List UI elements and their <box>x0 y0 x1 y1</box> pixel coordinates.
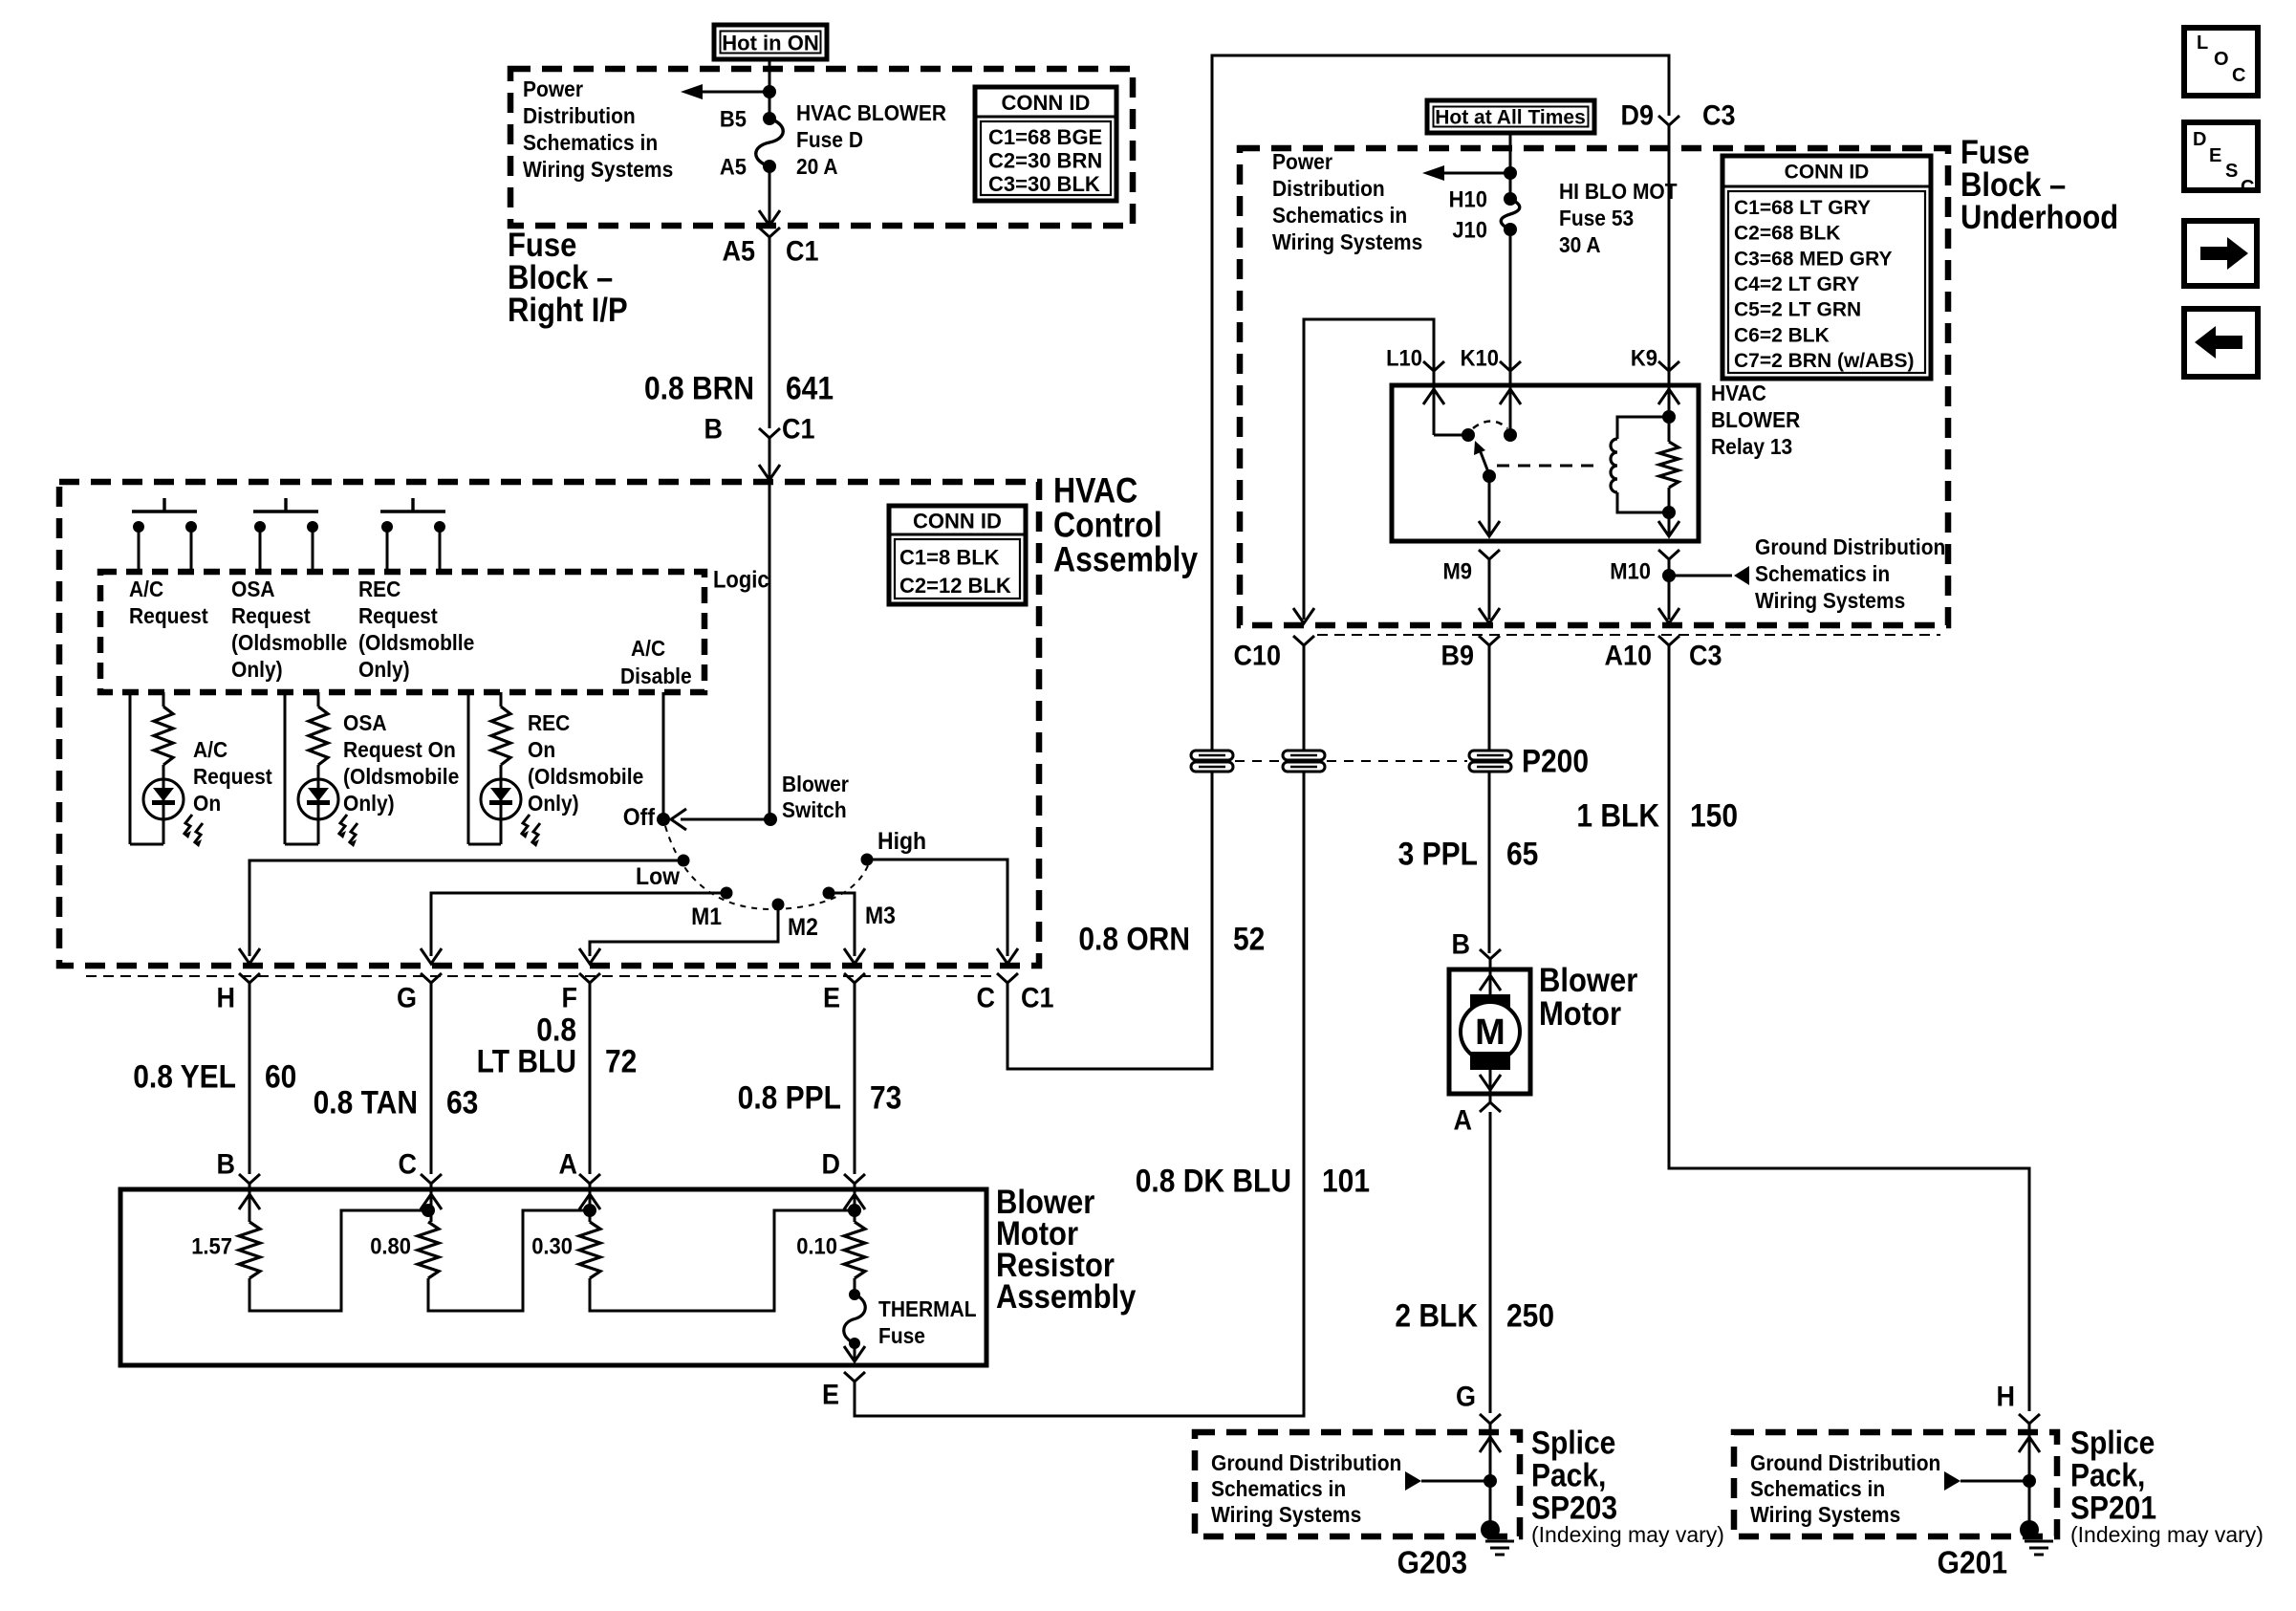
svg-text:M10: M10 <box>1610 557 1651 583</box>
svg-text:Motor: Motor <box>1539 995 1621 1033</box>
svg-text:Power: Power <box>1272 149 1332 174</box>
svg-text:150: 150 <box>1690 797 1738 834</box>
svg-text:K9: K9 <box>1631 344 1657 370</box>
blower switch common wire <box>769 482 771 819</box>
pin F <box>579 973 600 983</box>
svg-text:C3: C3 <box>1702 99 1736 131</box>
svg-text:0.30: 0.30 <box>531 1232 573 1258</box>
svg-text:C: C <box>976 982 995 1013</box>
svg-text:0.8 TAN: 0.8 TAN <box>314 1084 418 1121</box>
svg-text:OSA: OSA <box>231 577 274 601</box>
svg-text:65: 65 <box>1506 836 1538 872</box>
svg-text:Blower: Blower <box>1539 962 1637 999</box>
nav icon LOC <box>2184 28 2258 96</box>
resistor assembly pin C <box>421 1174 442 1184</box>
svg-text:High: High <box>877 828 926 855</box>
svg-text:Ground Distribution: Ground Distribution <box>1211 1450 1401 1475</box>
fuse block underhood connector boundary (thin dashed) <box>1317 634 1940 636</box>
svg-text:B: B <box>216 1148 235 1180</box>
svg-text:REC: REC <box>528 710 570 735</box>
connector C1 pin B fork <box>759 428 780 438</box>
svg-text:Wiring Systems: Wiring Systems <box>1755 588 1905 613</box>
svg-text:52: 52 <box>1233 921 1265 957</box>
ground stud G201 <box>2020 1520 2039 1539</box>
svg-text:0.80: 0.80 <box>370 1232 411 1258</box>
svg-text:L10: L10 <box>1386 344 1422 370</box>
svg-text:C4=2 LT GRY: C4=2 LT GRY <box>1734 273 1859 295</box>
svg-text:D9: D9 <box>1620 99 1654 131</box>
fuse D terminal A5 <box>763 160 776 173</box>
svg-text:(Indexing may vary): (Indexing may vary) <box>2070 1522 2264 1547</box>
wire into HVAC control assembly <box>769 438 771 478</box>
svg-text:Only): Only) <box>231 657 283 682</box>
svg-text:E: E <box>823 982 840 1013</box>
svg-text:Distribution: Distribution <box>523 103 636 128</box>
svg-text:On: On <box>528 737 555 762</box>
relay internal resistor <box>1668 417 1671 442</box>
relay pin arrow K9 <box>1658 389 1679 404</box>
svg-text:Fuse D: Fuse D <box>796 127 863 152</box>
svg-text:Wiring Systems: Wiring Systems <box>1272 229 1422 254</box>
svg-text:A/C: A/C <box>631 636 665 661</box>
svg-text:(Oldsmobile: (Oldsmobile <box>528 764 643 789</box>
svg-text:D: D <box>821 1148 840 1180</box>
svg-text:BLOWER: BLOWER <box>1711 407 1800 432</box>
splice pack SP203 dashed box <box>1195 1432 1520 1536</box>
svg-text:C1: C1 <box>1021 982 1054 1013</box>
wire 3 PPL 65 (B9 to blower motor) <box>1488 645 1491 953</box>
svg-text:K10: K10 <box>1461 344 1499 370</box>
OSA request LED branch with resistor <box>285 692 328 844</box>
junction dot r4 top <box>848 1204 861 1217</box>
svg-text:Request: Request <box>129 603 208 628</box>
resistor 1.57 <box>239 1222 260 1278</box>
svg-text:Switch: Switch <box>782 797 847 822</box>
svg-text:Pack,: Pack, <box>2070 1457 2145 1493</box>
fuse D HVAC BLOWER 20A <box>756 119 784 166</box>
blower motor internal bottom lead <box>1489 1070 1492 1094</box>
nav icon DESC <box>2184 122 2258 198</box>
fuse 53 terminal H10 <box>1504 192 1517 206</box>
svg-text:C6=2 BLK: C6=2 BLK <box>1734 324 1830 346</box>
svg-text:C1=8 BLK: C1=8 BLK <box>899 545 1000 569</box>
svg-text:Schematics in: Schematics in <box>523 130 658 155</box>
svg-text:60: 60 <box>265 1058 296 1095</box>
svg-text:0.8 DK BLU: 0.8 DK BLU <box>1136 1163 1291 1199</box>
relay common node <box>1483 469 1496 483</box>
logic dashed box <box>100 572 704 692</box>
blower switch junction dot <box>764 813 777 826</box>
relay switch NC contact <box>1434 434 1468 437</box>
svg-text:H: H <box>1996 1381 2015 1412</box>
svg-text:A10: A10 <box>1604 640 1652 671</box>
jog wire r3 to r4 <box>590 1210 855 1311</box>
svg-text:H10: H10 <box>1449 185 1487 211</box>
contact Low <box>678 855 690 867</box>
svg-text:1 BLK: 1 BLK <box>1576 797 1659 834</box>
svg-text:(Oldsmoblle: (Oldsmoblle <box>358 630 474 655</box>
wire hot-at-all-times feed <box>1509 133 1512 199</box>
wire 0.8 YEL 60 <box>249 983 251 1174</box>
wire J10 to relay K10 <box>1509 229 1512 435</box>
svg-text:On: On <box>193 791 221 816</box>
fuse block pin K9 <box>1658 361 1679 371</box>
bulkhead grommet P200 (PPL) <box>1469 751 1511 772</box>
svg-text:A/C: A/C <box>129 577 163 601</box>
svg-text:0.10: 0.10 <box>796 1232 837 1258</box>
blower motor upper brush <box>1470 994 1510 1012</box>
A/C request LED branch with resistor <box>130 692 173 844</box>
blower motor pin B <box>1480 949 1501 959</box>
wire M10 fork to junction <box>1668 559 1671 576</box>
fuse block underhood dashed box <box>1240 148 1948 625</box>
svg-text:G201: G201 <box>1938 1544 2007 1580</box>
svg-text:C2=30 BRN: C2=30 BRN <box>988 149 1102 173</box>
svg-text:Disable: Disable <box>620 664 692 688</box>
relay coil <box>1617 417 1669 439</box>
svg-text:THERMAL: THERMAL <box>878 1296 977 1321</box>
contact M1 <box>721 887 733 900</box>
ground symbol G201 <box>2025 1541 2053 1555</box>
relay actuation dashed link <box>1497 465 1598 468</box>
SP203 reference arrow <box>1405 1471 1490 1491</box>
svg-text:E: E <box>822 1379 839 1410</box>
fuse D terminal B5 <box>763 112 776 125</box>
svg-text:M: M <box>1475 1012 1505 1053</box>
bulkhead grommet P200 (ORN) <box>1191 751 1233 772</box>
conn id table underhood <box>1722 156 1931 379</box>
svg-text:O: O <box>2214 49 2229 70</box>
wire M9 to B9 <box>1488 559 1491 620</box>
wire 2 BLK 250 (A to G) <box>1489 1112 1492 1413</box>
svg-text:Fuse: Fuse <box>878 1323 925 1348</box>
conn id table control assembly <box>889 506 1026 604</box>
connector C1 pin A5 fork <box>759 228 780 237</box>
svg-text:Right I/P: Right I/P <box>508 292 628 329</box>
svg-text:HVAC: HVAC <box>1053 472 1137 512</box>
svg-text:Hot at All Times: Hot at All Times <box>1435 107 1586 129</box>
svg-text:Assembly: Assembly <box>1053 541 1198 580</box>
svg-text:C: C <box>2232 65 2245 86</box>
svg-text:1.57: 1.57 <box>191 1232 232 1258</box>
relay switch NO contact <box>1504 428 1517 442</box>
svg-text:S: S <box>2225 161 2238 182</box>
svg-text:B: B <box>1451 928 1470 960</box>
svg-text:0.8 YEL: 0.8 YEL <box>133 1058 236 1095</box>
arrow to power distribution (left) <box>681 84 769 99</box>
svg-text:CONN ID: CONN ID <box>913 510 1002 533</box>
svg-text:M2: M2 <box>788 914 818 941</box>
HVAC control assembly dashed box <box>59 482 1039 966</box>
svg-text:C2=12 BLK: C2=12 BLK <box>899 574 1011 598</box>
svg-text:63: 63 <box>446 1084 478 1121</box>
relay contact arc (dashed) <box>1473 422 1507 429</box>
svg-text:Schematics in: Schematics in <box>1272 203 1407 228</box>
thermal fuse <box>854 1278 856 1295</box>
contact Off <box>657 813 670 826</box>
svg-text:P200: P200 <box>1522 743 1589 779</box>
pin B9 <box>1479 636 1500 645</box>
pin H <box>239 973 260 983</box>
blower motor lower brush <box>1470 1052 1510 1070</box>
HVAC blower relay box <box>1392 385 1699 541</box>
wire A5 to connector C1 <box>769 166 771 223</box>
pin C connector C1 <box>997 973 1018 983</box>
svg-text:H: H <box>216 982 235 1013</box>
svg-text:Hot in ON: Hot in ON <box>722 32 818 55</box>
svg-text:C5=2 LT GRN: C5=2 LT GRN <box>1734 299 1861 321</box>
svg-text:B5: B5 <box>720 105 747 131</box>
wire High to pin C <box>867 860 1007 956</box>
svg-text:M1: M1 <box>691 903 722 930</box>
svg-text:C1=68 BGE: C1=68 BGE <box>988 125 1102 149</box>
wire 0.8 PPL 73 <box>854 983 856 1174</box>
contact High <box>861 854 874 866</box>
junction node H10 feed <box>1504 166 1517 180</box>
svg-text:Request On: Request On <box>343 737 456 762</box>
svg-text:0.8 PPL: 0.8 PPL <box>738 1079 841 1116</box>
svg-text:C10: C10 <box>1233 640 1281 671</box>
SP201 reference arrow <box>1944 1471 2029 1491</box>
svg-text:CONN ID: CONN ID <box>1002 91 1091 115</box>
wire C10 to relay L10 <box>1304 319 1434 620</box>
svg-text:C7=2 BRN (w/ABS): C7=2 BRN (w/ABS) <box>1734 350 1914 372</box>
ground symbol G203 <box>1485 1541 1514 1555</box>
splice pack SP201 pin H <box>2019 1414 2040 1424</box>
HVAC connector C1 boundary (thin dashed) <box>86 975 994 977</box>
svg-text:250: 250 <box>1506 1297 1554 1334</box>
relay pin arrow L10 <box>1423 389 1444 404</box>
fuse 53 HI BLO MOT 30A <box>1501 199 1520 229</box>
svg-text:Ground Distribution: Ground Distribution <box>1750 1450 1940 1475</box>
resistor assembly pin A <box>579 1174 600 1184</box>
connector C3 pin D9 fork <box>1658 116 1679 125</box>
svg-text:C3=68 MED GRY: C3=68 MED GRY <box>1734 248 1893 270</box>
svg-text:Request: Request <box>358 603 438 628</box>
svg-text:C: C <box>398 1148 417 1180</box>
ground stud G203 <box>1481 1520 1500 1539</box>
svg-text:Wiring Systems: Wiring Systems <box>1750 1502 1900 1527</box>
resistor assembly pin B <box>239 1174 260 1184</box>
svg-text:3 PPL: 3 PPL <box>1398 836 1478 872</box>
nav icon arrow left <box>2184 309 2258 377</box>
svg-text:L: L <box>2197 33 2208 54</box>
svg-text:E: E <box>2209 145 2221 166</box>
relay coil bottom node <box>1662 506 1676 519</box>
pushbutton switch A/C request <box>132 498 197 572</box>
fuse block pin L10 <box>1423 361 1444 371</box>
svg-text:Logic: Logic <box>713 566 769 592</box>
svg-text:Schematics in: Schematics in <box>1750 1476 1885 1501</box>
blower motor pin A <box>1489 1094 1492 1102</box>
SP203 internal wire <box>1489 1424 1492 1530</box>
pin G <box>421 973 442 983</box>
svg-text:C1: C1 <box>782 413 815 445</box>
svg-text:Relay 13: Relay 13 <box>1711 434 1792 459</box>
svg-text:J10: J10 <box>1452 216 1487 242</box>
svg-text:Wiring Systems: Wiring Systems <box>1211 1502 1361 1527</box>
contact M3 <box>823 887 835 900</box>
svg-text:C1: C1 <box>786 235 819 267</box>
junction M10 ground ref <box>1662 569 1676 582</box>
svg-text:Distribution: Distribution <box>1272 176 1385 201</box>
svg-text:HVAC BLOWER: HVAC BLOWER <box>796 100 946 125</box>
svg-text:Ground Distribution: Ground Distribution <box>1755 534 1945 559</box>
svg-text:20 A: 20 A <box>796 154 838 179</box>
svg-text:Splice: Splice <box>1531 1425 1615 1461</box>
svg-text:REC: REC <box>358 577 401 601</box>
svg-text:Request: Request <box>193 764 272 789</box>
svg-text:G: G <box>397 982 417 1013</box>
fuse block right I/P dashed box <box>510 69 1133 226</box>
blower switch wiper arrow to Off <box>671 809 770 830</box>
junction node B5 feed <box>763 85 776 98</box>
svg-text:C3: C3 <box>1689 640 1722 671</box>
wire M1 to pin G <box>431 893 726 956</box>
ground distribution reference arrow (M10) <box>1669 566 1749 585</box>
wire M10 to A10 <box>1668 576 1671 620</box>
svg-text:(Oldsmobile: (Oldsmobile <box>343 764 459 789</box>
REC request LED branch with resistor <box>468 692 510 844</box>
svg-text:2 BLK: 2 BLK <box>1395 1297 1478 1334</box>
wire 0.8 DK BLU 101 (E to C10) <box>855 645 1304 1416</box>
conn id table right I/P <box>975 87 1116 201</box>
wire 1 BLK 150 (A10 to SP201) <box>1669 645 2029 1411</box>
svg-text:Only): Only) <box>358 657 410 682</box>
SP201 internal wire <box>2028 1424 2031 1530</box>
blower switch position arc (dashed) <box>665 826 869 909</box>
svg-text:Blower: Blower <box>782 772 849 796</box>
svg-text:D: D <box>2193 129 2206 150</box>
svg-text:Wiring Systems: Wiring Systems <box>523 157 673 182</box>
SP201 junction dot <box>2023 1474 2036 1488</box>
junction dot r3 top <box>583 1204 596 1217</box>
pushbutton switch REC request <box>380 498 445 572</box>
wire Low to pin H <box>249 860 683 956</box>
svg-text:Schematics in: Schematics in <box>1211 1476 1346 1501</box>
blower motor resistor assembly box <box>120 1189 986 1365</box>
svg-text:C1=68 LT GRY: C1=68 LT GRY <box>1734 197 1871 219</box>
A/C disable wire to Off contact <box>662 692 665 819</box>
contact M2 <box>772 899 785 911</box>
wire hot-in-on feed <box>769 59 771 119</box>
wire 0.8 TAN 63 <box>430 983 433 1174</box>
relay armature with arrow <box>1474 441 1490 477</box>
svg-text:0.8 ORN: 0.8 ORN <box>1078 921 1190 957</box>
blower motor internal top lead <box>1489 969 1492 996</box>
svg-text:72: 72 <box>605 1043 637 1079</box>
SP203 junction dot <box>1484 1474 1497 1488</box>
nav icon arrow right <box>2184 221 2257 286</box>
relay coil top node <box>1662 410 1676 424</box>
svg-text:(Indexing may vary): (Indexing may vary) <box>1531 1522 1724 1547</box>
Hot at All Times label box <box>1427 100 1594 133</box>
svg-text:C2=68 BLK: C2=68 BLK <box>1734 223 1840 245</box>
svg-text:LT BLU: LT BLU <box>477 1043 576 1079</box>
svg-text:B9: B9 <box>1440 640 1474 671</box>
splice pack SP203 pin G <box>1480 1414 1501 1424</box>
bulkhead grommet P200 (DK BLU) <box>1283 751 1325 772</box>
svg-text:Pack,: Pack, <box>1531 1457 1606 1493</box>
svg-text:Schematics in: Schematics in <box>1755 561 1890 586</box>
pushbutton switch OSA request <box>253 498 318 572</box>
relay wire to M10 <box>1668 512 1671 533</box>
svg-text:Power: Power <box>523 76 583 101</box>
svg-text:A5: A5 <box>722 235 755 267</box>
svg-text:641: 641 <box>786 370 834 406</box>
wire M2 to pin F <box>590 904 778 956</box>
svg-text:Request: Request <box>231 603 311 628</box>
svg-text:101: 101 <box>1322 1163 1370 1199</box>
svg-text:A5: A5 <box>720 153 747 179</box>
junction dot r2 top <box>422 1204 435 1217</box>
Hot in ON label box <box>714 25 827 59</box>
relay common wire to M9 <box>1488 476 1491 533</box>
svg-text:CONN ID: CONN ID <box>1785 162 1870 184</box>
svg-text:B: B <box>704 413 723 445</box>
resistor assembly pin D <box>844 1174 865 1184</box>
svg-text:C3=30 BLK: C3=30 BLK <box>988 172 1100 196</box>
svg-text:A: A <box>1453 1104 1472 1136</box>
svg-text:F: F <box>562 982 577 1013</box>
svg-text:Splice: Splice <box>2070 1425 2155 1461</box>
svg-text:G203: G203 <box>1397 1544 1467 1580</box>
svg-text:Only): Only) <box>528 791 579 816</box>
fuse 53 terminal J10 <box>1504 223 1517 236</box>
fuse block pin K10 <box>1500 361 1521 371</box>
wire 0.8 LT BLU 72 <box>589 983 592 1174</box>
svg-text:M9: M9 <box>1442 557 1472 583</box>
svg-text:30 A: 30 A <box>1559 232 1601 257</box>
resistor 0.10 <box>844 1222 865 1278</box>
svg-text:HI BLO MOT: HI BLO MOT <box>1559 179 1678 204</box>
svg-text:HVAC: HVAC <box>1711 381 1766 405</box>
svg-text:Control: Control <box>1053 507 1162 546</box>
pass-through P200 dashed line <box>1235 760 1281 762</box>
pin A10 connector C3 <box>1658 636 1679 645</box>
blower motor box <box>1449 969 1530 1094</box>
wire D9 to relay K9 <box>1668 125 1671 417</box>
svg-text:73: 73 <box>870 1079 901 1116</box>
arrow to power distribution (underhood) <box>1422 165 1510 181</box>
pin C10 <box>1293 636 1314 645</box>
svg-text:Low: Low <box>636 863 680 890</box>
jog wire r2 to r3 <box>428 1210 590 1311</box>
svg-text:G: G <box>1456 1381 1476 1412</box>
pin E <box>844 973 865 983</box>
svg-text:SP203: SP203 <box>1531 1490 1617 1526</box>
svg-text:M3: M3 <box>865 903 896 929</box>
svg-text:A/C: A/C <box>193 737 227 762</box>
wire 0.8 ORN 52 (pin C to D9) <box>1007 55 1669 1069</box>
svg-text:C: C <box>2241 177 2254 198</box>
jog wire r1 to r2 <box>249 1210 428 1311</box>
svg-text:(Oldsmoblle: (Oldsmoblle <box>231 630 347 655</box>
resistor assembly pin E <box>844 1372 865 1382</box>
resistor 0.30 <box>579 1222 600 1278</box>
relay pin M10 <box>1658 550 1679 559</box>
svg-text:Only): Only) <box>343 791 395 816</box>
svg-text:Fuse 53: Fuse 53 <box>1559 206 1634 230</box>
relay pin M9 <box>1479 550 1500 559</box>
svg-text:Assembly: Assembly <box>996 1278 1137 1316</box>
svg-text:Underhood: Underhood <box>1960 199 2118 236</box>
svg-text:0.8 BRN: 0.8 BRN <box>644 370 754 406</box>
svg-text:SP201: SP201 <box>2070 1490 2156 1526</box>
resistor 0.80 <box>418 1222 439 1278</box>
svg-text:Off: Off <box>623 804 656 831</box>
svg-text:OSA: OSA <box>343 710 386 735</box>
